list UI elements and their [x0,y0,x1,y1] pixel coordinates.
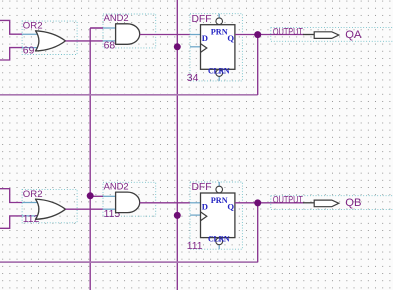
svg-text:OR2: OR2 [23,189,43,200]
wire: OR2 output to AND2 input 2 (top row) [66,40,104,42]
svg-text:69: 69 [23,46,35,57]
DFF inst 34: clear bubble [216,70,223,77]
junction J1: clock tap to DFF (top) [174,43,181,50]
wire: external input net A to OR2 input 1 (top row) [0,20,22,34]
wire: horizontal bus 1 (y=95) [0,94,258,96]
wire: feedback net from vertical V1 to AND2 input 1 (bottom row) [90,195,103,197]
wire: AND2 output to DFF D input (top row) [140,34,190,36]
vertical clock net V2 (x=177.3, full height) [176,0,178,290]
DFF inst 34: clock edge triangle [201,44,207,53]
or-gate OR2 inst 69: gate body [36,31,66,51]
output pin QA: lead line [303,34,314,36]
and-gate AND2 inst 115 (bottom row): selection box [103,182,156,216]
svg-text:111: 111 [187,241,203,252]
or-gate OR2 inst 69 (top row): selection box [22,21,77,54]
svg-text:D: D [202,33,208,43]
wire: external input net B to OR2 input 2 (bottom row) [0,216,22,228]
d-flip-flop DFF inst 111 (bottom row): selection box [190,182,242,249]
DFF inst 111: D and CLK pin stubs [190,202,201,204]
wire: DFF Q output to output pin QA [235,34,304,36]
DFF inst 34: PRN pin stub [218,14,220,18]
wire: horizontal bus 2 (y=262.3) [0,261,258,263]
and-gate AND2 inst 68 (top row): selection box [103,14,156,48]
DFF inst 111: PRN pin stub [218,182,220,186]
wire: corner from V1 top to AND2 input 1 (top row) [90,27,103,29]
output pin QB: pin symbol [314,200,339,207]
DFF inst 34: body rectangle [201,25,235,70]
svg-text:Q: Q [227,33,234,43]
wire: DFF Q output to output pin QB [235,202,304,204]
DFF inst 34: preset bubble [216,18,223,25]
output pin QB: selection box [271,196,393,210]
output pin QA: selection box [271,27,393,41]
svg-text:PRN: PRN [211,196,228,205]
vertical feedback net V1 (x=90.2) from top corner to bottom edge [89,28,91,290]
svg-text:CLRN: CLRN [208,235,230,244]
svg-text:68: 68 [104,41,116,52]
wire: OR2 output to AND2 input 2 (bottom row) [66,208,104,210]
and-gate AND2 inst 115: gate body [116,192,140,213]
wire: external input net B to OR2 input 2 (top row) [0,48,22,60]
svg-text:QB: QB [345,197,361,209]
DFF inst 34: D and CLK pin stubs [190,34,201,36]
svg-text:DFF: DFF [192,14,212,25]
or-gate OR2 inst 112: input pin stubs [22,202,38,204]
DFF inst 111: body rectangle [201,193,235,238]
svg-text:AND2: AND2 [104,12,129,23]
DFF inst 34: CLRN pin stub [218,76,220,81]
svg-text:QA: QA [345,29,362,41]
or-gate OR2 inst 69: input pin stubs [22,33,38,35]
DFF inst 111: CLRN pin stub [218,245,220,250]
output pin QA: pin symbol [314,32,339,39]
svg-text:PRN: PRN [211,28,228,37]
and-gate AND2 inst 68: input pin stubs [103,27,116,29]
DFF inst 111: clear bubble [216,238,223,245]
junction J2: QA node [254,31,261,38]
output pin QB: lead line [303,202,314,204]
svg-text:D: D [202,201,208,211]
and-gate AND2 inst 68: gate body [116,24,140,45]
DFF inst 111: preset bubble [216,186,223,193]
svg-text:DFF: DFF [192,182,212,193]
svg-text:34: 34 [187,73,199,84]
wire: QA vertical drop to bus 1 [257,35,259,96]
or-gate OR2 inst 112: gate body [36,199,66,219]
junction J4: clock tap to DFF (bottom) [174,212,181,219]
wire: feedback net from vertical V1 to AND2 input 1 (top row) [90,27,103,29]
svg-text:Q: Q [227,201,234,211]
junction J5: QB node [254,199,261,206]
wire: AND2 output to DFF D input (bottom row) [140,202,190,204]
and-gate AND2 inst 115: input pin stubs [103,195,116,197]
d-flip-flop DFF inst 34 (top row): selection box [190,14,242,81]
svg-text:OUTPUT: OUTPUT [273,27,303,38]
svg-text:OUTPUT: OUTPUT [273,195,303,206]
wire: external input net A to OR2 input 1 (bottom row) [0,189,22,203]
svg-text:OR2: OR2 [23,21,43,32]
or-gate OR2 inst 112 (bottom row): selection box [22,189,77,222]
junction J3: feedback tap to AND2 (bottom) [87,192,94,199]
svg-text:CLRN: CLRN [208,66,230,75]
DFF inst 111: clock edge triangle [201,212,207,221]
svg-text:AND2: AND2 [104,180,129,191]
wire: QB vertical drop to bus 2 [257,203,259,262]
